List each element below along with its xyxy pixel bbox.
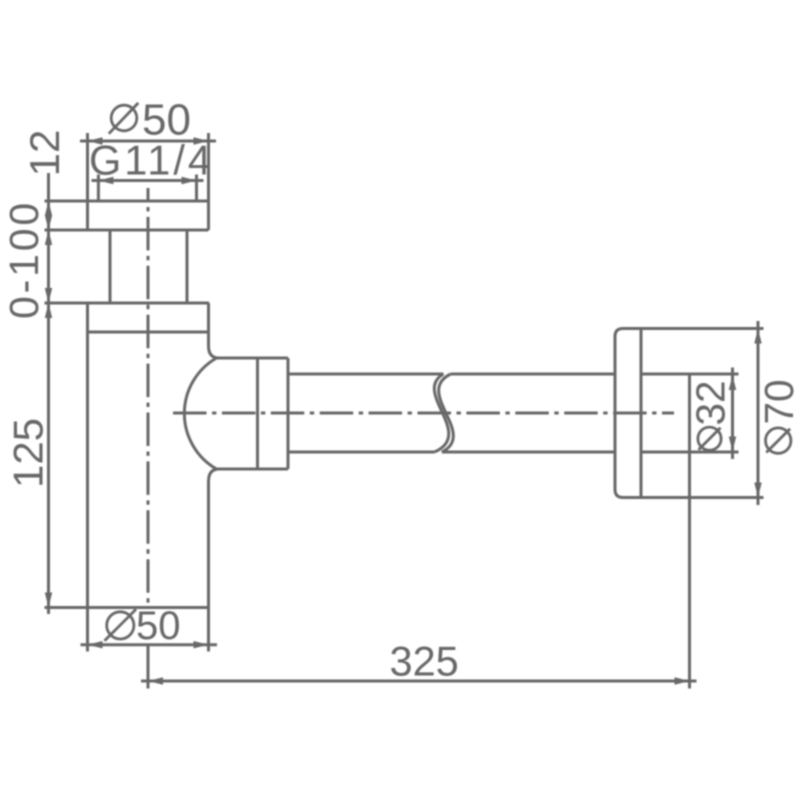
svg-text:G11/4: G11/4 bbox=[89, 137, 214, 184]
arrows of 125 dimension bbox=[45, 303, 52, 608]
dimension Ø50 bottom bbox=[81, 643, 218, 646]
dimension G11/4 thread bbox=[92, 175, 204, 201]
arrows of 12 dimension bbox=[45, 201, 52, 230]
svg-text:0-100: 0-100 bbox=[1, 200, 47, 319]
threaded inlet neck bbox=[110, 230, 187, 303]
dimension 325 bbox=[141, 680, 697, 683]
label Ø50 top bbox=[109, 96, 191, 145]
wall flange rosette bbox=[615, 329, 764, 498]
dimension Ø32 bbox=[731, 368, 734, 460]
svg-text:50: 50 bbox=[136, 604, 181, 648]
svg-text:125: 125 bbox=[5, 418, 52, 488]
bottle trap body cup bbox=[45, 303, 210, 652]
centerline extension below body bbox=[147, 646, 150, 689]
label Ø70 (rotated) bbox=[756, 379, 800, 453]
svg-text:12: 12 bbox=[21, 130, 68, 177]
vertical centerline of body bbox=[147, 188, 150, 608]
left vertical dimension line chain (12 / 0-100 / 125) bbox=[47, 173, 50, 614]
top flange of tailpiece nut bbox=[45, 133, 209, 230]
dimension Ø70 bbox=[757, 321, 760, 505]
label Ø50 bottom bbox=[105, 604, 181, 648]
pipe end into wall bbox=[641, 374, 739, 689]
arrows of 0-100 dimension bbox=[45, 230, 52, 303]
horizontal outlet pipe bbox=[288, 374, 615, 452]
horizontal centerline of pipe bbox=[173, 412, 674, 415]
label Ø32 (rotated) bbox=[688, 380, 734, 450]
svg-text:32: 32 bbox=[688, 380, 734, 425]
pipe break symbol bbox=[434, 374, 453, 452]
svg-text:325: 325 bbox=[390, 638, 459, 685]
svg-text:70: 70 bbox=[756, 379, 800, 424]
dimension Ø50 top bbox=[80, 140, 216, 143]
outlet union nut with bulge bbox=[184, 346, 288, 482]
